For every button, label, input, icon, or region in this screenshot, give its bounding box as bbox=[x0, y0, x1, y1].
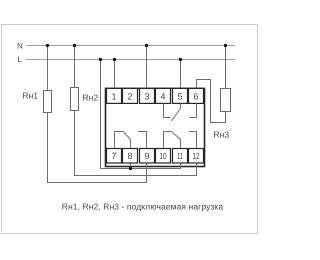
terminal 1 bbox=[107, 88, 122, 103]
junction dot L-terminal5 bbox=[179, 58, 182, 61]
junction dot terminal8 bbox=[129, 167, 132, 170]
contact K2 lead terminal 9 bbox=[138, 132, 147, 149]
svg-text:9: 9 bbox=[144, 151, 149, 161]
svg-text:N: N bbox=[17, 41, 23, 50]
wire L to terminal 5 bbox=[180, 60, 182, 90]
contact K2 common lead terminal 8 bbox=[130, 140, 132, 149]
contact K1 common lead terminal 5 bbox=[180, 104, 182, 109]
svg-text:Rн2: Rн2 bbox=[83, 92, 99, 102]
wire N to terminal 3 bbox=[146, 46, 148, 90]
terminal 4 bbox=[156, 88, 171, 103]
contact K3 lead terminal 12 bbox=[189, 132, 197, 149]
wire terminal 6 to Rн3 bottom bbox=[197, 80, 226, 123]
svg-text:7: 7 bbox=[111, 151, 116, 161]
junction dot L-wrap bbox=[99, 58, 102, 61]
wire N to Rн1 bbox=[47, 46, 49, 91]
terminal 11 bbox=[173, 149, 188, 164]
contact K1 lead terminal 4 bbox=[164, 104, 171, 118]
junction dot N-terminal3 bbox=[145, 44, 148, 47]
svg-text:Rн1, Rн2, Rн3 - подключаемая н: Rн1, Rн2, Rн3 - подключаемая нагрузка bbox=[62, 201, 224, 211]
contact K1 lead terminal 6 bbox=[190, 104, 197, 118]
wire Rн1 bottom to terminal 9 bbox=[48, 113, 147, 183]
wire L wrap-around to terminal 11 bbox=[101, 60, 181, 169]
contact K3 moving arm bbox=[172, 132, 181, 140]
resistor Rн3 bbox=[221, 89, 231, 112]
svg-text:12: 12 bbox=[192, 151, 199, 161]
terminal 12 bbox=[189, 149, 204, 164]
wire L to terminal 1 bbox=[114, 60, 116, 90]
terminal 8 bbox=[123, 149, 138, 164]
svg-text:2: 2 bbox=[127, 92, 132, 102]
terminal 3 bbox=[140, 88, 155, 103]
svg-text:3: 3 bbox=[144, 92, 149, 102]
terminal 6 bbox=[189, 88, 204, 103]
junction dot L-terminal1 bbox=[113, 58, 116, 61]
terminal 2 bbox=[123, 88, 138, 103]
svg-text:5: 5 bbox=[177, 92, 182, 102]
frame border bbox=[2, 25, 258, 234]
wire N to Rн3 bbox=[225, 46, 227, 89]
wire Rн2 bottom to terminal 12 bbox=[75, 111, 197, 176]
svg-text:4: 4 bbox=[160, 92, 165, 102]
relay block outline U1 bbox=[106, 88, 205, 166]
contact K2 lead terminal 7 bbox=[115, 132, 124, 149]
svg-text:11: 11 bbox=[177, 151, 183, 161]
terminal 5 bbox=[173, 88, 188, 103]
wire L line bbox=[26, 59, 235, 61]
contact K3 lead terminal 10 bbox=[164, 132, 172, 149]
svg-text:1: 1 bbox=[111, 92, 116, 102]
svg-text:Rн3: Rн3 bbox=[214, 130, 230, 140]
terminal 9 bbox=[140, 149, 155, 164]
terminal 10 bbox=[156, 149, 171, 164]
contact K2 moving arm bbox=[123, 132, 130, 140]
svg-text:Rн1: Rн1 bbox=[22, 91, 38, 101]
junction dot N-Rн2 bbox=[73, 44, 76, 47]
resistor Rн1 bbox=[44, 91, 52, 113]
resistor Rн2 bbox=[71, 88, 79, 111]
wire terminal 8 stub bbox=[130, 163, 132, 169]
junction dot N-Rн1 bbox=[46, 44, 49, 47]
contact K1 moving arm bbox=[171, 109, 180, 122]
contact K3 common lead terminal 11 bbox=[180, 140, 182, 149]
svg-text:6: 6 bbox=[193, 92, 198, 102]
wire N to Rн2 bbox=[74, 46, 76, 89]
wire N line bbox=[26, 45, 235, 47]
svg-text:8: 8 bbox=[127, 151, 132, 161]
junction dot N-Rн3 bbox=[224, 44, 227, 47]
terminal 7 bbox=[107, 149, 122, 164]
svg-text:10: 10 bbox=[159, 151, 166, 161]
svg-text:L: L bbox=[18, 55, 23, 64]
